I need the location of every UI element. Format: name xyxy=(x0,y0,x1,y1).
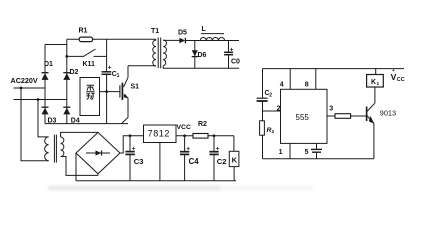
svg-text:D2: D2 xyxy=(70,69,79,76)
wire AC line upper xyxy=(14,87,46,89)
resistor R1 xyxy=(79,28,93,42)
driver box U (qu-dong) xyxy=(80,78,100,116)
capacitor C2 (psu) xyxy=(209,134,226,180)
svg-text:K11: K11 xyxy=(83,61,96,68)
svg-text:3: 3 xyxy=(329,105,333,112)
wire secondary top bus xyxy=(186,40,239,42)
wire bridge top bar xyxy=(45,44,67,46)
wire VCC rail xyxy=(176,135,234,137)
wire AC line lower xyxy=(14,99,67,101)
node dot C1/gate wire xyxy=(105,90,108,93)
svg-text:D1: D1 xyxy=(44,61,53,68)
IC 555 xyxy=(281,89,328,143)
wire bridge plus to 7812 xyxy=(120,136,144,153)
svg-text:R1: R1 xyxy=(79,28,88,35)
svg-text:1: 1 xyxy=(377,81,380,87)
svg-text:C0: C0 xyxy=(231,59,240,66)
capacitor C0 xyxy=(224,41,240,69)
bridge rectifier diamond xyxy=(76,132,120,175)
svg-text:R2: R2 xyxy=(198,121,207,128)
wire AC drop right to LF transformer xyxy=(38,100,49,137)
inductor L xyxy=(200,26,224,41)
transformer T2 (mains) xyxy=(45,135,64,163)
wire secondary bottom bus xyxy=(163,66,239,69)
wire PSU bottom rail xyxy=(76,180,236,182)
svg-text:K: K xyxy=(371,79,376,86)
svg-text:7812: 7812 xyxy=(148,129,170,139)
node junction dot upper AC xyxy=(20,87,23,90)
pin 2 xyxy=(263,110,281,112)
svg-text:1: 1 xyxy=(117,73,120,79)
pin 8 xyxy=(315,69,317,90)
svg-text:8: 8 xyxy=(305,82,309,89)
svg-text:CC: CC xyxy=(397,77,405,83)
wire top bus to T1 xyxy=(67,38,156,40)
diode D3 xyxy=(42,107,57,124)
relay K1 xyxy=(367,69,384,87)
pin 5 capacitor xyxy=(305,143,322,158)
diode D4 xyxy=(63,107,80,124)
wire T1 secondary top xyxy=(163,39,180,41)
capacitor C1 xyxy=(102,39,120,123)
svg-text:5: 5 xyxy=(305,149,309,156)
svg-text:V: V xyxy=(391,72,397,82)
resistor R2 xyxy=(193,121,208,138)
svg-text:T1: T1 xyxy=(151,28,159,35)
pin 1 xyxy=(289,143,291,158)
wire bridge left rail xyxy=(44,45,46,124)
wire 555 top rail xyxy=(263,68,405,70)
node junction dot lower AC xyxy=(37,98,40,101)
svg-text:+: + xyxy=(216,146,220,153)
svg-text:D5: D5 xyxy=(178,29,187,36)
svg-text:L: L xyxy=(202,26,207,33)
wire bridge bottom rail xyxy=(45,123,128,125)
node VCC (555) xyxy=(391,70,405,83)
svg-text:2: 2 xyxy=(269,93,272,99)
regulator U 7812 xyxy=(144,125,177,181)
svg-text:555: 555 xyxy=(296,113,310,122)
relay coil K xyxy=(229,136,239,181)
wire T2 sec top to bridge xyxy=(61,132,98,137)
svg-text:C3: C3 xyxy=(134,157,144,166)
svg-text:S1: S1 xyxy=(131,84,140,91)
svg-text:D6: D6 xyxy=(198,52,207,59)
wire T1 primary bottom to S1 collector xyxy=(128,65,156,67)
wire driver to S1 gate xyxy=(100,91,120,93)
svg-text:K: K xyxy=(232,156,238,165)
switch K11 xyxy=(65,49,106,68)
diode D5 xyxy=(178,29,187,43)
svg-text:+: + xyxy=(230,46,234,53)
svg-text:AC220V: AC220V xyxy=(11,76,38,85)
capacitor C3 xyxy=(125,134,143,180)
svg-text:4: 4 xyxy=(280,82,284,89)
transistor S1 xyxy=(120,66,139,124)
wire AC drop left to LF transformer xyxy=(21,88,49,161)
wire 555 bottom rail xyxy=(263,158,374,160)
wire bridge right rail xyxy=(66,39,68,123)
svg-text:C2: C2 xyxy=(217,157,227,166)
diode D6 xyxy=(192,41,207,69)
wire 555 left rail xyxy=(262,69,264,159)
svg-text:2: 2 xyxy=(272,129,275,135)
diode D1 xyxy=(42,61,54,80)
svg-text:VCC: VCC xyxy=(177,124,191,131)
transistor Q 9013 xyxy=(367,87,396,159)
svg-text:D3: D3 xyxy=(48,117,57,124)
pin 3 with resistor xyxy=(327,105,367,118)
svg-text:D4: D4 xyxy=(71,117,80,124)
svg-text:9013: 9013 xyxy=(380,108,396,117)
svg-text:+: + xyxy=(132,146,136,153)
svg-text:2: 2 xyxy=(277,105,281,112)
wire bridge minus down xyxy=(75,153,77,181)
transformer T1 xyxy=(151,28,166,68)
pin 4 xyxy=(289,69,291,90)
scan shadow bottom xyxy=(48,186,220,191)
diode D2 xyxy=(63,69,78,80)
svg-text:C4: C4 xyxy=(189,157,200,166)
resistor R2 (555) xyxy=(260,121,275,135)
capacitor C2 (555) xyxy=(257,90,273,101)
wire T2 sec bottom to bridge xyxy=(61,157,98,176)
svg-text:1: 1 xyxy=(279,149,283,156)
capacitor C4 xyxy=(180,134,199,180)
svg-text:+: + xyxy=(186,146,190,153)
